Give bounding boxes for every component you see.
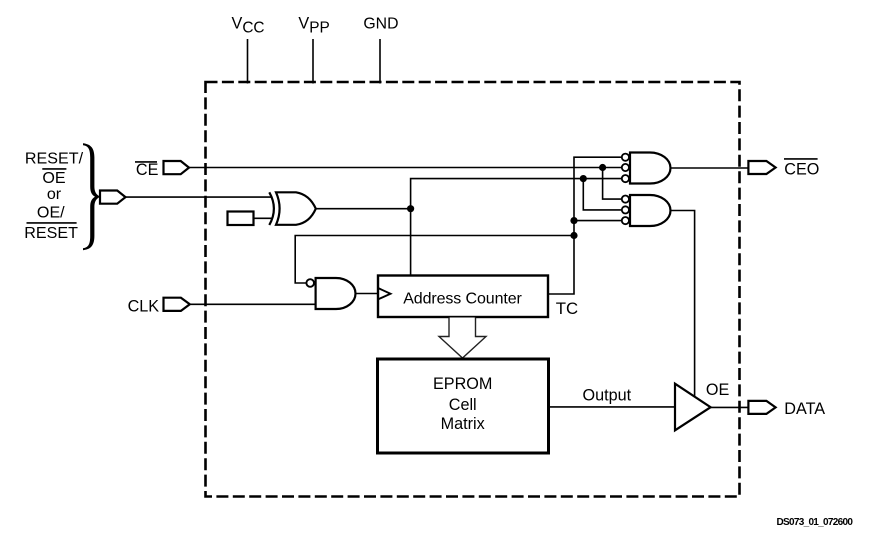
wire NAND output to counter clock [356,293,379,295]
xor gate input arc [269,192,274,225]
svg-text:Matrix: Matrix [441,415,485,433]
svg-text:RESET/: RESET/ [25,150,84,168]
wire branch to AND2 input 2 [583,179,621,210]
junction XOR output [407,205,414,212]
wire XOR output to junction [316,208,411,210]
option box [228,212,254,226]
svg-text:RESET: RESET [24,224,78,242]
wire TC to AND1 input 1 [548,157,621,294]
svg-text:OE: OE [706,381,730,399]
brace [83,143,100,250]
label RESET/OE or OE/RESET [24,150,83,242]
nand gate body [316,278,356,309]
wire RESET input to XOR [126,196,272,198]
svg-text:Cell: Cell [449,396,477,414]
svg-text:EPROM: EPROM [433,375,492,393]
svg-text:or: or [47,185,62,203]
svg-text:OE/: OE/ [37,203,65,221]
xor gate body [276,192,316,225]
svg-text:CE: CE [136,161,159,179]
EPROM cell matrix box [378,359,549,453]
wire junction up and to AND1 input 3 [411,179,621,209]
output buffer triangle [675,384,711,431]
nand gate bubble [306,279,314,287]
AND gate U1 (to CEO) [630,153,670,184]
wire feedback TC to NAND input 1 [295,236,574,284]
input pin CLK [164,298,190,311]
wire TC branch to AND2 input 3 [574,220,621,222]
wire EPROM output to buffer [549,406,676,408]
svg-text:GND: GND [363,16,398,33]
counter clock triangle [378,288,391,299]
AND2 input bubbles [622,196,629,203]
svg-text:DATA: DATA [784,400,825,418]
junction TC branch [570,217,577,224]
chip boundary (dashed) [206,82,740,497]
wire AND1 output to CEO pin [671,167,749,169]
AND gate U2 (to OE) [630,195,670,226]
output pin DATA [748,401,775,414]
junction CE branch [599,164,606,171]
address counter box [378,276,548,318]
svg-text:TC: TC [556,299,578,318]
svg-text:Address Counter: Address Counter [403,290,522,307]
svg-text:Output: Output [583,386,632,404]
junction feedback [570,232,577,239]
input pin RESET/OE [100,191,126,204]
pin VPP stub [312,39,314,84]
pin VCC stub [247,39,249,84]
output pin CEO [748,161,775,174]
wire buffer to DATA pin [711,406,749,408]
wire CLK to NAND input 2 [190,303,316,305]
AND1 input bubbles [622,154,629,161]
wire AND2 output to buffer OE [671,211,695,398]
input pin CE [164,161,190,174]
wire CE to AND1 input 2 [189,167,621,169]
svg-text:DS073_01_072600: DS073_01_072600 [777,517,854,528]
hollow arrow counter to EPROM [439,318,486,359]
junction AND2 input 2 branch [580,175,587,182]
svg-text:CEO: CEO [784,160,819,178]
wire CE branch to AND2 input 1 [603,168,621,200]
wire junction down to counter [410,209,412,276]
wire option box to XOR [254,217,272,219]
pin GND stub [379,39,381,84]
svg-text:CLK: CLK [128,297,160,315]
